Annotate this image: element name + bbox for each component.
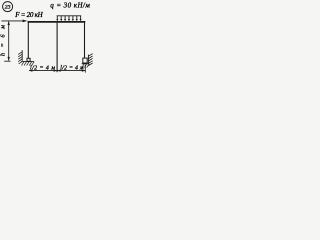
- svg-text:h = 6 м: h = 6 м: [1, 25, 7, 56]
- svg-text:23: 23: [5, 5, 11, 11]
- svg-text:F = 20 кН: F = 20 кН: [14, 11, 43, 19]
- svg-text:q = 30 кН/м: q = 30 кН/м: [50, 2, 90, 10]
- svg-text:l/2 = 4 м: l/2 = 4 м: [60, 65, 84, 71]
- svg-text:l/2 = 4 м: l/2 = 4 м: [30, 65, 55, 71]
